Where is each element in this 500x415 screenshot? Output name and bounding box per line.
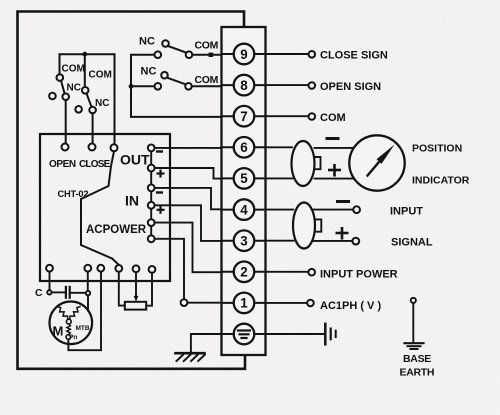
svg-text:COM: COM	[320, 112, 346, 124]
svg-text:3: 3	[240, 234, 247, 249]
svg-text:Pn: Pn	[69, 334, 77, 341]
svg-text:POSITION: POSITION	[412, 143, 462, 155]
svg-text:C: C	[35, 287, 43, 299]
svg-text:7: 7	[240, 109, 247, 124]
svg-text:INPUT: INPUT	[390, 206, 423, 218]
svg-text:2: 2	[240, 265, 247, 280]
svg-text:NC: NC	[141, 66, 157, 78]
svg-text:IN: IN	[125, 193, 139, 209]
svg-text:ACPOWER: ACPOWER	[86, 224, 147, 236]
svg-text:NC: NC	[95, 98, 109, 109]
svg-text:INDICATOR: INDICATOR	[412, 175, 470, 187]
svg-text:COM: COM	[62, 64, 85, 75]
svg-text:COM: COM	[195, 74, 219, 86]
svg-text:INPUT POWER: INPUT POWER	[320, 269, 398, 281]
svg-text:EARTH: EARTH	[400, 367, 435, 379]
svg-text:BASE: BASE	[403, 353, 431, 365]
svg-text:M: M	[53, 324, 64, 339]
svg-text:SIGNAL: SIGNAL	[391, 237, 433, 249]
svg-text:1: 1	[240, 296, 248, 311]
svg-text:5: 5	[240, 171, 248, 186]
svg-text:CLOSE: CLOSE	[79, 159, 111, 170]
svg-text:COM: COM	[89, 70, 112, 81]
svg-text:CHT-02: CHT-02	[58, 189, 89, 199]
svg-text:COM: COM	[195, 40, 219, 52]
svg-text:6: 6	[240, 140, 247, 155]
svg-text:OPEN SIGN: OPEN SIGN	[320, 81, 381, 93]
svg-text:8: 8	[240, 78, 248, 93]
svg-text:NC: NC	[67, 83, 81, 94]
svg-text:AC1PH ( V ): AC1PH ( V )	[320, 300, 381, 312]
svg-text:MTB: MTB	[76, 325, 90, 332]
svg-text:OUT: OUT	[120, 152, 150, 168]
svg-text:9: 9	[240, 47, 247, 62]
svg-text:CLOSE SIGN: CLOSE SIGN	[320, 50, 388, 62]
svg-text:OPEN: OPEN	[49, 159, 76, 170]
svg-text:4: 4	[240, 202, 248, 217]
svg-text:NC: NC	[139, 36, 155, 48]
